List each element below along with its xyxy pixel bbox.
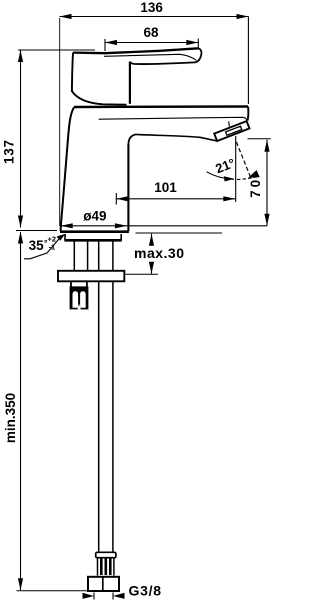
leader arrowhead for 35 degrees: [57, 234, 66, 241]
mounting washer: [58, 271, 124, 282]
aerator slot: [226, 126, 242, 135]
lever tip curve: [195, 48, 201, 62]
hose lower lines: [98, 282, 100, 553]
body right edge: [127, 145, 129, 232]
svg-text:137: 137: [2, 140, 17, 164]
max.30 top extension line: [136, 232, 223, 234]
handle bottom edge: [72, 91, 127, 105]
dimension 101 line: [116, 193, 235, 205]
svg-text:68: 68: [143, 25, 159, 40]
faucet body and spout: [60, 107, 248, 232]
dimension 70 vertical line: [264, 140, 269, 226]
max.30 up arrow: [149, 234, 154, 246]
dimension min.350 vertical line: [18, 232, 23, 591]
spout top edge: [74, 105, 248, 108]
leader line for 35 degrees: [24, 237, 61, 259]
hose end hex nut G3/8: [88, 577, 119, 591]
dimension 137 vertical line: [18, 50, 23, 228]
body right fillet: [128, 134, 136, 144]
bottom dimension arrows: [83, 593, 95, 599]
angle arc arrowhead end (up-right): [248, 170, 260, 178]
threaded shank lines: [73, 242, 75, 271]
label 35 degrees with tolerance: [29, 235, 56, 253]
svg-text:min.350: min.350: [3, 393, 18, 443]
svg-text:101: 101: [154, 180, 177, 195]
handle right edge: [129, 62, 131, 104]
extension line left of 136: [59, 18, 61, 226]
extension line bottom of 137 / top of min.350: [16, 230, 57, 232]
spout underside: [136, 134, 217, 141]
spout tip right edge: [247, 107, 250, 121]
extension line top of 70: [248, 138, 271, 140]
max.30 bottom extension line: [112, 273, 159, 275]
hose crimp collar: [96, 552, 116, 557]
extension line bottom of min.350: [17, 590, 88, 592]
sub-plate under base: [65, 234, 122, 241]
dimension line o49 and 70 extension: [61, 223, 267, 228]
angle 21 dashed stream line: [236, 142, 250, 176]
handle left edge: [72, 53, 73, 92]
dimension 68 line: [105, 39, 198, 52]
svg-text:136: 136: [140, 0, 163, 15]
body left edge: [61, 107, 75, 231]
svg-text:35: 35: [29, 238, 45, 253]
base bottom edge: [60, 230, 129, 233]
max.30 down arrow: [149, 262, 154, 274]
bottom dimension ticks: [93, 593, 95, 600]
extension line right of 136: [247, 17, 249, 105]
handle top edge: [73, 48, 199, 53]
aerator box: [214, 121, 249, 141]
hose tail upper lines: [98, 242, 100, 271]
lever inner top line: [104, 54, 197, 60]
aerator center tick: [228, 121, 231, 126]
svg-text:G3/8: G3/8: [129, 582, 162, 598]
hose crimp ribs: [98, 558, 114, 576]
mounting nut: [70, 282, 89, 310]
lever blade bottom edge: [130, 62, 195, 65]
spout inner line: [99, 117, 247, 120]
angle arc arrowhead right (on vertical line): [224, 176, 235, 181]
svg-text:max.30: max.30: [134, 245, 184, 261]
aerator (tilted outlet): [214, 121, 249, 141]
dimension 136 line: [60, 14, 249, 19]
extension line top of 137: [18, 49, 95, 51]
angle arc: [207, 172, 235, 180]
faucet handle lever: [72, 48, 202, 104]
angle reference vertical line: [235, 136, 237, 202]
svg-text:ø49: ø49: [83, 208, 106, 223]
